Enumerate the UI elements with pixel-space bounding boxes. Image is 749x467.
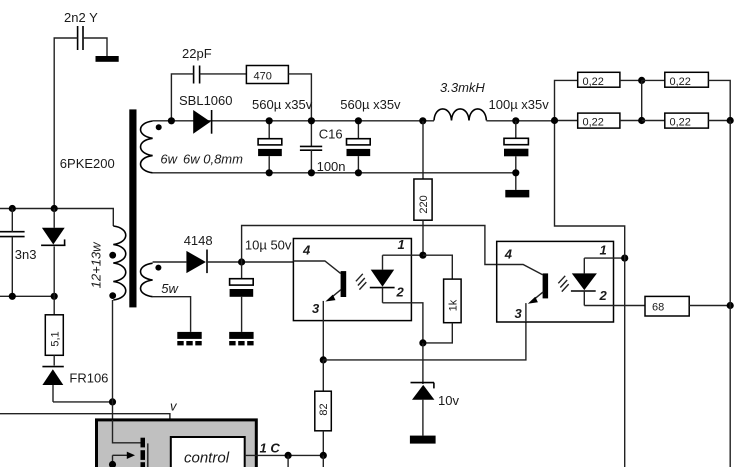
wire U2 pin1 (584, 257, 624, 259)
svg-text:2: 2 (599, 288, 608, 303)
capacitor 560u x35v no.2 (340, 97, 401, 173)
diode FR106 (42, 355, 108, 402)
label 1 C (260, 441, 281, 456)
svg-text:3n3: 3n3 (15, 247, 37, 262)
node 560u2 bottom (355, 169, 362, 176)
resistor 82 (315, 360, 332, 456)
ground (100u) (505, 190, 529, 198)
wire 22pF to 470 (200, 73, 247, 75)
wire C pin down 2 (322, 455, 324, 467)
wire 3n3 top (11, 209, 13, 232)
node 560u1 top (266, 117, 273, 124)
optocoupler U1 box (293, 239, 411, 321)
resistor 0,22 no.1 (555, 72, 642, 121)
wire V pin (0, 414, 170, 420)
resistor 0,22 no.3 (555, 113, 642, 129)
svg-text:10v: 10v (438, 393, 459, 408)
svg-text:C16: C16 (319, 127, 343, 142)
wire FR106 to drain line (53, 401, 113, 403)
resistor 68 (645, 296, 730, 316)
ground (10u) (229, 332, 253, 346)
U2 LED (571, 258, 597, 305)
node U2 pin1 (621, 255, 628, 262)
node A (2n2/rail) (51, 205, 58, 212)
wire lower-left rail (0, 295, 54, 297)
transformer secondary winding 5w (141, 263, 180, 297)
U1 LED (370, 255, 395, 303)
wire pin3 bus to U2 pin3 (323, 322, 526, 360)
capacitor 560u x35v no.1 (252, 97, 313, 173)
capacitor 3n3 (0, 232, 37, 262)
wire 22pF branch left (171, 74, 193, 121)
svg-text:2: 2 (396, 284, 405, 299)
svg-text:3: 3 (312, 301, 320, 316)
wire U1 pin2 (383, 303, 423, 343)
svg-text:6PKE200: 6PKE200 (60, 156, 115, 171)
svg-text:5w: 5w (161, 281, 179, 296)
capacitor 100u x35v (489, 97, 550, 190)
wire U2 pin2 to 68 (584, 305, 645, 307)
node C pin 2 (320, 452, 327, 459)
wire 2n2 left (54, 38, 77, 209)
transformer secondary winding 6w (141, 121, 244, 173)
node 560u2 top (355, 117, 362, 124)
control block (171, 437, 245, 467)
node U1 pin1 (419, 252, 426, 259)
capacitor C16 100n (300, 121, 346, 174)
ground (2n2 Y) (96, 56, 119, 62)
U1 pin 2 label (396, 284, 405, 299)
wire 470 to rail (288, 74, 311, 121)
wire right bus down (729, 121, 731, 467)
svg-text:0,22: 0,22 (670, 76, 691, 88)
svg-text:1: 1 (398, 237, 405, 252)
svg-text:3: 3 (515, 306, 523, 321)
svg-text:control: control (184, 450, 230, 467)
diode 4148 (153, 233, 294, 273)
svg-text:470: 470 (254, 71, 272, 83)
svg-text:5,1: 5,1 (49, 331, 61, 346)
wire 2n2 right (83, 38, 107, 56)
wire top-left rail (0, 209, 113, 227)
svg-text:100n: 100n (317, 159, 346, 174)
node C16 bottom (308, 169, 315, 176)
node C (3n3 bottom) (9, 293, 16, 300)
wire C pin down 1 (287, 455, 289, 467)
U2 light arrows (558, 276, 568, 292)
node B (3n3/rail) (9, 205, 16, 212)
node D (5,1 top) (51, 293, 58, 300)
svg-text:1 C: 1 C (260, 441, 281, 456)
resistor 5,1 (45, 296, 63, 355)
transformer primary winding 12+13w (88, 226, 125, 300)
optocoupler U2 box (497, 241, 614, 322)
svg-text:0,22: 0,22 (670, 117, 691, 129)
svg-text:2n2 Y: 2n2 Y (64, 10, 98, 25)
capacitor 2n2 Y (64, 10, 98, 50)
node 4148/10u (238, 258, 245, 265)
resistor 1k (423, 255, 461, 343)
svg-text:1: 1 (600, 242, 607, 257)
U1 phototransistor (293, 261, 346, 321)
wire U1 pin1 to 220 (383, 254, 423, 256)
IC block (gray) (97, 420, 257, 467)
svg-text:0,22: 0,22 (583, 117, 604, 129)
capacitor 22pF (182, 46, 212, 84)
U2 pin 3 label (515, 306, 523, 321)
svg-text:4: 4 (302, 243, 311, 258)
resistor 0,22 no.4 (642, 113, 731, 129)
wire bottom rail (153, 172, 516, 174)
transformer core (129, 109, 136, 307)
svg-text:10µ 50v: 10µ 50v (245, 237, 292, 252)
node 0,22 right (727, 117, 734, 124)
svg-text:6w: 6w (160, 152, 178, 167)
U1 pin 1 label (398, 237, 405, 252)
node E (drain line) (109, 398, 116, 405)
ground (zener) (410, 436, 436, 444)
zener diode 10v (411, 343, 460, 436)
inductor 3.3mkH (434, 80, 486, 120)
svg-text:220: 220 (418, 195, 430, 213)
svg-text:100µ x35v: 100µ x35v (489, 97, 550, 112)
node C16 top (308, 117, 315, 124)
resistor 0,22 no.2 (642, 72, 731, 120)
svg-text:0,22: 0,22 (583, 76, 604, 88)
U1 light arrows (356, 274, 366, 290)
node 100u bottom rail (512, 169, 519, 176)
node 0,22 mid bottom (638, 117, 645, 124)
ground (5w return) (177, 332, 201, 346)
diode SBL1060 (179, 93, 233, 134)
node 68 right (727, 302, 734, 309)
svg-text:22pF: 22pF (182, 46, 212, 61)
node U1 pin3 (320, 356, 327, 363)
svg-text:FR106: FR106 (69, 371, 108, 386)
svg-text:82: 82 (318, 403, 330, 415)
node inductor left (419, 117, 426, 124)
U1 pin 3 label (312, 301, 320, 316)
svg-text:6w 0,8mm: 6w 0,8mm (183, 152, 243, 167)
wire feedback drop (0,22 left to U2 pin1) (555, 121, 625, 467)
node 0,22 left (551, 117, 558, 124)
svg-text:3.3mkH: 3.3mkH (440, 80, 485, 95)
node 22pF branch (168, 117, 175, 124)
svg-text:1k: 1k (447, 299, 459, 311)
resistor 470 (246, 66, 288, 84)
svg-text:560µ x35v: 560µ x35v (340, 97, 401, 112)
svg-text:4148: 4148 (184, 233, 213, 248)
U2 pin 1 label (600, 242, 607, 257)
wire top rail (153, 120, 555, 122)
wire U1 pin3 (322, 321, 324, 360)
label v (170, 399, 178, 414)
svg-text:4: 4 (504, 246, 513, 261)
wire 0,22 mid vertical (641, 80, 643, 120)
TVS diode 6PKE200 (41, 156, 115, 296)
svg-text:560µ x35v: 560µ x35v (252, 97, 313, 112)
wire 5w return (153, 297, 191, 332)
U1 pin 4 label (302, 243, 311, 258)
svg-text:12+13w: 12+13w (88, 241, 103, 289)
svg-text:68: 68 (652, 302, 664, 314)
wire C pin (245, 454, 324, 456)
U2 pin 4 label (504, 246, 513, 261)
U2 phototransistor (497, 265, 548, 323)
U2 pin 2 label (599, 288, 608, 303)
node 560u1 bottom (266, 169, 273, 176)
node 0,22 mid top (638, 77, 645, 84)
capacitor 10u 50v (230, 237, 292, 332)
resistor 220 (414, 121, 432, 255)
wire primary top (112, 300, 114, 421)
node inductor right (512, 117, 519, 124)
MOSFET Q1 (109, 420, 148, 467)
wire 10u node to opto2 pin4 (242, 226, 497, 265)
node C pin 1 (285, 452, 292, 459)
node 1k bottom (419, 339, 426, 346)
svg-text:SBL1060: SBL1060 (179, 93, 233, 108)
wire 3n3 bottom (11, 237, 13, 297)
